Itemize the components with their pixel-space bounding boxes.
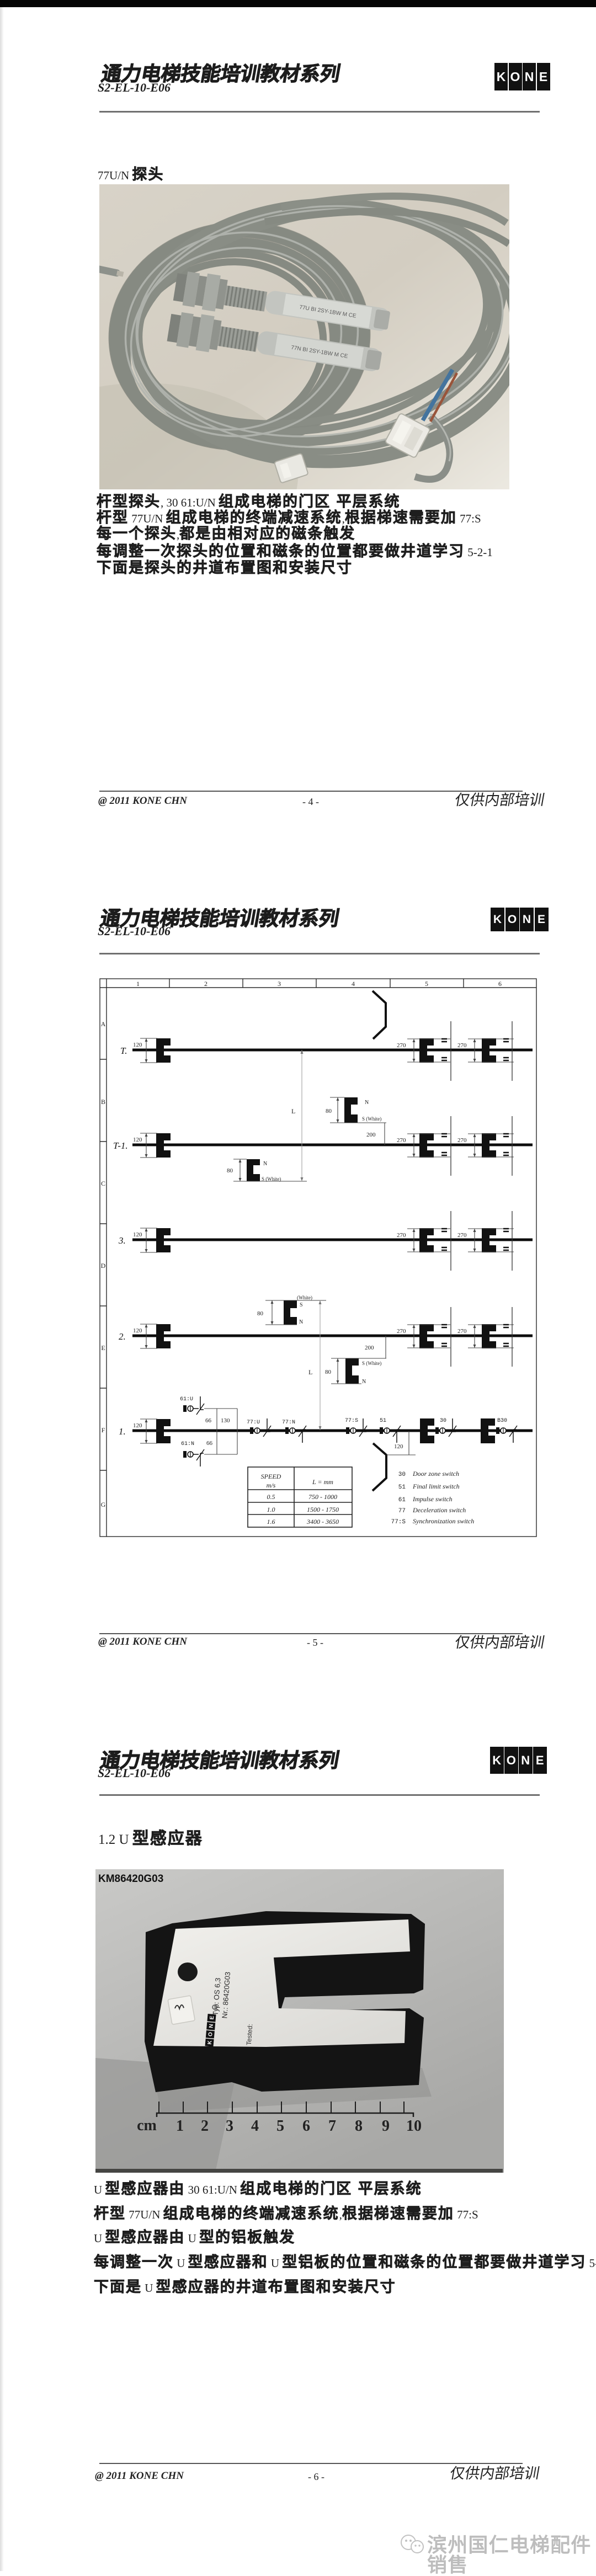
floor T. line bbox=[132, 1049, 533, 1052]
mini KONE logo rotated bbox=[205, 2014, 216, 2047]
ruler baseline bbox=[157, 2113, 413, 2117]
page1 body text lines bbox=[97, 494, 401, 509]
blue wire bbox=[423, 370, 453, 420]
svg-text:N: N bbox=[208, 2024, 215, 2028]
ruler ticks bbox=[159, 2102, 404, 2113]
svg-text:51: 51 bbox=[398, 1484, 406, 1491]
svg-text:80: 80 bbox=[326, 1108, 332, 1114]
page1 header code bbox=[98, 82, 171, 94]
svg-text:61:N: 61:N bbox=[181, 1441, 194, 1447]
left band line bbox=[106, 979, 107, 1537]
svg-text:77:U: 77:U bbox=[247, 1420, 260, 1426]
brown wire bbox=[430, 373, 457, 422]
svg-text:2: 2 bbox=[204, 980, 207, 988]
dim 200 below sensor to floor T-1 bbox=[384, 1123, 385, 1145]
rotated type label text bbox=[211, 1971, 232, 2019]
svg-text:8: 8 bbox=[355, 2118, 363, 2135]
floor 3. vane vertical lines bbox=[451, 1211, 512, 1271]
svg-text:61:U: 61:U bbox=[180, 1396, 193, 1402]
floor 3. left sensor 61:U/N bbox=[156, 1228, 171, 1252]
floor 3. right sensors 30 (door zone) bbox=[419, 1228, 434, 1252]
door zone sensor 30 on floor1 bbox=[420, 1418, 434, 1443]
svg-text:1.6: 1.6 bbox=[267, 1518, 275, 1526]
svg-text:S (White): S (White) bbox=[262, 1176, 281, 1182]
svg-text:4: 4 bbox=[352, 980, 355, 988]
svg-text:1.0: 1.0 bbox=[267, 1506, 275, 1513]
svg-text:B: B bbox=[101, 1098, 105, 1106]
svg-text:77:S: 77:S bbox=[345, 1418, 358, 1424]
svg-text:S (White): S (White) bbox=[362, 1116, 381, 1122]
svg-text:10: 10 bbox=[406, 2118, 422, 2135]
svg-text:1: 1 bbox=[176, 2118, 184, 2135]
svg-text:N: N bbox=[263, 1161, 267, 1167]
page3 header title bbox=[99, 1751, 340, 1770]
svg-text:9: 9 bbox=[382, 2118, 390, 2135]
white cube sticker bbox=[168, 1996, 195, 2025]
svg-text:Tested:: Tested: bbox=[245, 2024, 254, 2046]
svg-text:F: F bbox=[102, 1426, 105, 1434]
floor 3. line bbox=[132, 1239, 533, 1241]
page2 header rule bbox=[99, 953, 540, 954]
svg-text:130: 130 bbox=[221, 1417, 230, 1424]
page2 footer bbox=[98, 1636, 187, 1647]
photo bottom dark edge bbox=[95, 2169, 503, 2173]
page1 photo: coiled cables with two probes bbox=[99, 184, 509, 489]
floor 2. line bbox=[132, 1335, 533, 1337]
svg-text:L: L bbox=[308, 1368, 312, 1376]
dim 200 from floor 2 down bbox=[385, 1336, 386, 1358]
floor 2. vane vertical lines bbox=[451, 1307, 512, 1367]
svg-text:270: 270 bbox=[397, 1137, 406, 1144]
magnet sensor below floor 2 bbox=[345, 1358, 359, 1384]
svg-text:200: 200 bbox=[366, 1132, 376, 1138]
magnet sensor above floor 2 bbox=[284, 1300, 297, 1325]
cable coil shadows bbox=[104, 219, 372, 459]
svg-text:30: 30 bbox=[440, 1418, 446, 1424]
cable end to connector bbox=[415, 416, 450, 479]
svg-text:2: 2 bbox=[201, 2118, 209, 2135]
svg-text:1500 - 1750: 1500 - 1750 bbox=[307, 1506, 339, 1513]
svg-text:2.: 2. bbox=[119, 1331, 126, 1342]
svg-text:3: 3 bbox=[278, 980, 281, 988]
page1 footer bbox=[98, 796, 187, 806]
svg-text:270: 270 bbox=[457, 1328, 467, 1335]
svg-text:270: 270 bbox=[457, 1042, 467, 1049]
page3 header rule bbox=[99, 1794, 540, 1796]
svg-text:120: 120 bbox=[133, 1327, 142, 1334]
magnet sensor below T-1 bbox=[247, 1159, 260, 1181]
svg-text:3400 - 3650: 3400 - 3650 bbox=[306, 1518, 339, 1526]
svg-text:D: D bbox=[101, 1262, 106, 1270]
svg-text:270: 270 bbox=[397, 1232, 406, 1239]
svg-text:C: C bbox=[101, 1180, 105, 1187]
svg-text:270: 270 bbox=[397, 1328, 406, 1335]
page2 KONE logo bbox=[491, 908, 549, 931]
magnet sensor between T and T-1 bbox=[344, 1097, 358, 1123]
svg-text:T-1.: T-1. bbox=[113, 1140, 128, 1151]
svg-text:A: A bbox=[101, 1020, 106, 1028]
svg-text:77:N: 77:N bbox=[282, 1420, 295, 1426]
floor 3. magnet = marks bbox=[441, 1229, 509, 1250]
svg-text:E: E bbox=[209, 2015, 216, 2020]
floor T-1. right sensors 30 (door zone) bbox=[419, 1133, 434, 1158]
speed table bbox=[248, 1467, 352, 1527]
svg-text:0.5: 0.5 bbox=[267, 1493, 275, 1501]
floor T-1. magnet = marks bbox=[441, 1134, 509, 1155]
page3 photo: U-shaped sensor KM86420G03 bbox=[95, 1869, 504, 2173]
svg-text:3.: 3. bbox=[118, 1235, 126, 1246]
legend bbox=[391, 1470, 475, 1526]
svg-text:N: N bbox=[365, 1100, 369, 1106]
svg-text:200: 200 bbox=[365, 1345, 374, 1351]
cable highlights bbox=[111, 191, 523, 456]
page2 header code bbox=[98, 925, 171, 937]
svg-text:m/s: m/s bbox=[267, 1481, 276, 1489]
svg-text:S (White): S (White) bbox=[362, 1361, 381, 1366]
page1 header rule bbox=[99, 111, 540, 113]
column ticks bbox=[169, 979, 464, 988]
door zone sensor B30 on floor1 bbox=[481, 1418, 495, 1443]
svg-text:77: 77 bbox=[398, 1508, 406, 1514]
page3 footer rule bbox=[99, 2463, 523, 2464]
floor T. left sensor 61:U/N bbox=[156, 1038, 171, 1063]
top black bar bbox=[0, 0, 596, 7]
svg-text:N: N bbox=[299, 1319, 303, 1325]
small test dot bbox=[212, 2005, 217, 2009]
floor T. magnet = marks bbox=[441, 1039, 509, 1060]
page3 body text lines bbox=[94, 2182, 422, 2196]
white connector bbox=[385, 413, 430, 458]
probe 1 (77U) bbox=[173, 269, 392, 339]
page1 KONE logo bbox=[494, 63, 551, 90]
brace top (synchronization zone) bbox=[372, 991, 386, 1039]
page3 footer bbox=[95, 2471, 184, 2481]
L dimension line T to below T-1 bbox=[301, 1050, 302, 1181]
small connector bottom center-left bbox=[274, 454, 308, 483]
svg-text:270: 270 bbox=[457, 1232, 467, 1239]
page1 header title bbox=[100, 64, 342, 84]
page2 footer rule bbox=[99, 1633, 523, 1634]
shadow under block bbox=[155, 2068, 432, 2112]
top-right corner cable arc bbox=[281, 196, 507, 223]
svg-text:77:S: 77:S bbox=[391, 1519, 406, 1526]
left edge shade bbox=[0, 7, 4, 2571]
floor 2. right sensors 30 (door zone) bbox=[419, 1324, 434, 1348]
svg-text:(White): (White) bbox=[297, 1295, 312, 1300]
svg-text:N: N bbox=[362, 1379, 366, 1385]
svg-text:Door zone switch: Door zone switch bbox=[412, 1470, 459, 1478]
svg-text:270: 270 bbox=[397, 1042, 406, 1049]
cable coils dense cluster bbox=[101, 219, 372, 467]
svg-text:5: 5 bbox=[276, 2118, 284, 2135]
floor T. vane vertical lines bbox=[451, 1021, 512, 1081]
photo background bbox=[95, 1869, 504, 2173]
row ticks bbox=[100, 1059, 107, 1470]
svg-text:SPEED: SPEED bbox=[261, 1473, 281, 1480]
svg-text:4: 4 bbox=[251, 2118, 259, 2135]
svg-text:30: 30 bbox=[398, 1471, 406, 1478]
svg-text:Final limit switch: Final limit switch bbox=[412, 1482, 460, 1490]
svg-text:120: 120 bbox=[133, 1042, 142, 1048]
svg-text:S: S bbox=[300, 1302, 303, 1308]
floor T. right sensors 30 (door zone) bbox=[419, 1038, 434, 1063]
page1 footer rule bbox=[99, 791, 523, 792]
row letters bbox=[101, 1020, 106, 1508]
svg-text:1: 1 bbox=[136, 980, 140, 988]
page3 KONE logo bbox=[490, 1747, 547, 1774]
floor T-1. vane vertical lines bbox=[451, 1116, 512, 1176]
svg-text:120: 120 bbox=[133, 1231, 142, 1238]
L dimension line above 2 to 1 bbox=[320, 1300, 321, 1430]
svg-text:80: 80 bbox=[325, 1369, 332, 1375]
top band line bbox=[100, 987, 536, 988]
svg-text:51: 51 bbox=[380, 1418, 386, 1424]
svg-text:61: 61 bbox=[398, 1497, 406, 1503]
svg-text:cm: cm bbox=[137, 2117, 157, 2134]
svg-text:6: 6 bbox=[302, 2118, 310, 2135]
svg-text:80: 80 bbox=[227, 1167, 233, 1174]
diagram outer frame bbox=[100, 979, 536, 1537]
page2 header title bbox=[99, 909, 340, 929]
svg-text:66: 66 bbox=[206, 1440, 213, 1447]
floor 2. magnet = marks bbox=[441, 1325, 509, 1346]
cable stub top-left bbox=[93, 265, 124, 278]
svg-text:5: 5 bbox=[425, 980, 428, 988]
svg-text:6: 6 bbox=[498, 980, 502, 988]
page3 section heading 1.2 bbox=[98, 1831, 203, 1847]
svg-text:KM86420G03: KM86420G03 bbox=[98, 1873, 163, 1885]
U block black silhouette bbox=[145, 1911, 425, 2092]
cable big loops bbox=[116, 178, 525, 468]
ruler numbers bbox=[137, 2117, 422, 2135]
svg-text:Synchronization switch: Synchronization switch bbox=[413, 1517, 474, 1525]
dim 120 at floor1 bbox=[386, 1431, 416, 1455]
floor T-1. line bbox=[132, 1144, 533, 1146]
svg-text:120: 120 bbox=[133, 1422, 142, 1429]
floor T-1. left sensor 61:U/N bbox=[156, 1133, 171, 1158]
svg-text:120: 120 bbox=[394, 1443, 403, 1450]
svg-text:1.: 1. bbox=[119, 1426, 126, 1437]
U white top face bbox=[153, 1919, 410, 2047]
photo background bbox=[99, 184, 509, 489]
svg-text:O: O bbox=[207, 2032, 214, 2037]
dim box 66/130 at floor1 bbox=[204, 1409, 237, 1454]
svg-text:Impulse switch: Impulse switch bbox=[412, 1495, 453, 1503]
svg-text:120: 120 bbox=[133, 1137, 142, 1143]
watermark bbox=[398, 2532, 581, 2558]
svg-text:B30: B30 bbox=[497, 1418, 507, 1424]
svg-text:E: E bbox=[101, 1344, 105, 1352]
brace bottom bbox=[372, 1443, 386, 1491]
svg-text:T.: T. bbox=[120, 1046, 127, 1056]
label hole circle bbox=[178, 1962, 198, 1981]
probe 2 (77N) bbox=[166, 310, 384, 379]
floor 1. line bbox=[132, 1430, 533, 1432]
svg-text:Deceleration switch: Deceleration switch bbox=[412, 1506, 466, 1514]
floor 2. left sensor 61:U/N bbox=[156, 1324, 171, 1348]
svg-text:3: 3 bbox=[226, 2118, 233, 2135]
svg-text:270: 270 bbox=[457, 1137, 467, 1144]
page2 shaft layout diagram bbox=[99, 978, 538, 1537]
page1 section heading 77U/N bbox=[98, 167, 164, 182]
svg-text:L: L bbox=[291, 1107, 295, 1115]
svg-text:750 - 1000: 750 - 1000 bbox=[308, 1493, 337, 1501]
column numbers bbox=[136, 980, 502, 988]
svg-text:80: 80 bbox=[257, 1310, 264, 1317]
svg-text:7: 7 bbox=[328, 2118, 336, 2135]
Tested: rotated bbox=[245, 2024, 254, 2046]
svg-text:L = mm: L = mm bbox=[312, 1478, 333, 1486]
svg-text:66: 66 bbox=[205, 1417, 212, 1424]
page3 header code bbox=[98, 1767, 171, 1779]
floor 1. left sensor 61:U/N bbox=[156, 1419, 171, 1443]
svg-text:G: G bbox=[101, 1501, 106, 1508]
